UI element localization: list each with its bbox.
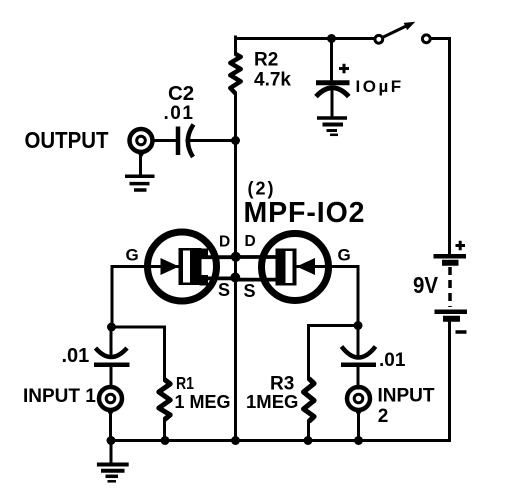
- svg-text:1MEG: 1MEG: [246, 391, 298, 412]
- svg-text:R1: R1: [176, 373, 194, 393]
- svg-text:.01: .01: [62, 345, 90, 367]
- svg-text:9V: 9V: [413, 272, 439, 298]
- svg-text:INPUT: INPUT: [378, 386, 435, 407]
- svg-text:D: D: [245, 233, 256, 250]
- svg-text:R2: R2: [254, 50, 278, 71]
- svg-text:MPF-IO2: MPF-IO2: [244, 197, 366, 229]
- svg-text:G: G: [126, 246, 139, 265]
- svg-text:.01: .01: [164, 103, 195, 124]
- svg-text:2: 2: [378, 406, 389, 427]
- svg-text:D: D: [219, 234, 230, 251]
- svg-text:INPUT 1: INPUT 1: [23, 386, 96, 407]
- svg-text:1 MEG: 1 MEG: [175, 392, 231, 412]
- svg-text:IOµF: IOµF: [356, 77, 404, 96]
- svg-text:OUTPUT: OUTPUT: [25, 127, 109, 153]
- svg-text:G: G: [338, 246, 351, 265]
- svg-text:.01: .01: [379, 350, 406, 371]
- svg-text:S: S: [218, 280, 230, 300]
- svg-text:(2): (2): [248, 178, 276, 198]
- svg-text:C2: C2: [168, 82, 194, 105]
- svg-text:S: S: [244, 281, 256, 301]
- svg-text:4.7k: 4.7k: [254, 70, 291, 91]
